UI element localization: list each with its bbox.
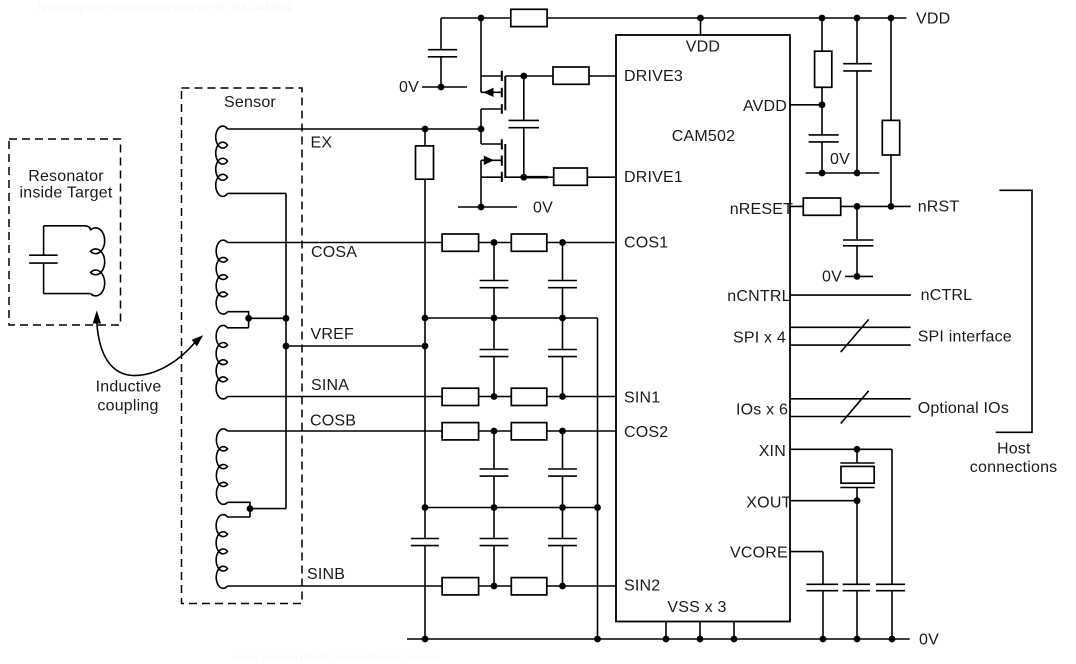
svg-text:VCORE: VCORE bbox=[730, 545, 788, 562]
resistor R COS1 a bbox=[442, 234, 479, 251]
svg-text:nCTRL: nCTRL bbox=[921, 287, 973, 304]
capacitor C gate-gate bbox=[509, 120, 540, 127]
node COS2 right bbox=[559, 428, 566, 435]
svg-text:Sensor: Sensor bbox=[224, 94, 276, 111]
svg-text:0V: 0V bbox=[399, 79, 419, 96]
coil EX bbox=[216, 126, 228, 196]
svg-text:COSB: COSB bbox=[310, 413, 356, 430]
svg-text:Host: Host bbox=[997, 441, 1031, 458]
coil SINB bbox=[216, 515, 250, 589]
node tap A on inner vertical bbox=[283, 315, 290, 322]
wire VDD to nRST pullup bbox=[890, 18, 892, 120]
node nRST pullup bbox=[888, 203, 895, 210]
transistor Q2 channel bbox=[501, 139, 503, 182]
node 0V stub AVDD left bbox=[819, 170, 826, 177]
capacitor C c2 COS1-rail1 bbox=[548, 281, 577, 288]
wire XOUT cap to rail bbox=[856, 591, 858, 639]
resistor R AVDD bbox=[815, 51, 832, 87]
arrowhead toward sensor bbox=[192, 335, 204, 346]
wire centre tap A to inner vertical bbox=[249, 317, 286, 319]
node SIN2 mid bbox=[491, 583, 498, 590]
wire gate cap link lower bbox=[523, 128, 525, 177]
node XIN crystal bbox=[854, 446, 861, 453]
wire EX line bbox=[228, 128, 482, 130]
transistor Q1 body lead bbox=[481, 91, 502, 93]
svg-text:COS2: COS2 bbox=[624, 424, 668, 441]
wire resistor to VREF/cap bbox=[424, 179, 426, 538]
wire Q1 drain to EX node bbox=[480, 109, 482, 129]
transistor Q2 source lead bbox=[481, 176, 502, 178]
wire XIN cap to rail bbox=[891, 591, 893, 639]
capacitor C VREF-0V bbox=[411, 539, 439, 546]
svg-text:AVDD: AVDD bbox=[743, 98, 787, 115]
wire cap column c2 upper bbox=[562, 243, 564, 397]
capacitor C c1 rail1-SIN1 bbox=[480, 350, 509, 357]
node VSS 1 bbox=[663, 636, 670, 643]
wire AVDD resistor to node and cap bbox=[821, 87, 823, 134]
wire resonator loop bottom bbox=[44, 293, 91, 295]
resistor R SIN1 b bbox=[511, 388, 547, 405]
wire VDD decoupling cap top bbox=[856, 18, 858, 63]
svg-text:EX: EX bbox=[311, 135, 333, 152]
svg-text:COSA: COSA bbox=[311, 244, 357, 261]
capacitor C XIN load bbox=[876, 584, 905, 590]
wire Q2 gate to DRIVE1 bbox=[505, 176, 524, 178]
node rail1 c2 bbox=[559, 315, 566, 322]
crystal X1 top plate bbox=[840, 462, 874, 464]
wire VDD down to Q1 bbox=[480, 18, 482, 92]
node rail at x891 bbox=[888, 15, 895, 22]
wire EX node down to Q2 drain bbox=[480, 129, 482, 144]
svg-text:VREF: VREF bbox=[311, 326, 354, 343]
transistor Q2 body lead bbox=[481, 159, 502, 161]
transistor Q2 body arrow bbox=[484, 156, 494, 165]
wire cap column c1 lower bbox=[493, 431, 495, 586]
wire AVDD cap to 0V stub bbox=[821, 142, 823, 173]
wire cap to 0V stub bbox=[440, 57, 442, 87]
svg-text:nRESET: nRESET bbox=[730, 201, 793, 218]
coil COSB bbox=[216, 429, 227, 504]
wire COSA bottom lead bbox=[228, 312, 249, 328]
transistor Q1 source lead bbox=[481, 75, 502, 77]
resistor R SIN2 b bbox=[511, 578, 547, 595]
wire cap column c2 lower bbox=[562, 431, 564, 586]
wire resonator left leg bbox=[43, 226, 45, 294]
wire nRESET pin line bbox=[790, 205, 911, 207]
bus slash SPI bbox=[841, 319, 869, 352]
svg-text:SINB: SINB bbox=[307, 566, 345, 583]
svg-text:0V: 0V bbox=[830, 151, 850, 168]
node VSS 3 bbox=[731, 636, 738, 643]
wire resonator loop top bbox=[44, 226, 91, 230]
wire VCORE line bbox=[790, 551, 823, 553]
svg-text:Optional IOs: Optional IOs bbox=[918, 400, 1009, 417]
transistor Q2 gate bar bbox=[504, 144, 506, 178]
capacitor C c1 rail2-SIN2 bbox=[480, 539, 509, 546]
node EX at x481 bbox=[478, 126, 485, 133]
node rail at x822 bbox=[819, 15, 826, 22]
node rail2 c1 bbox=[491, 504, 498, 511]
resonator dashed box bbox=[9, 139, 121, 325]
capacitor C AVDD bbox=[809, 135, 839, 142]
host bracket bbox=[996, 190, 1032, 432]
wire gate cap link upper bbox=[523, 76, 525, 120]
svg-text:inside Target: inside Target bbox=[19, 185, 112, 202]
wire XIN line bbox=[790, 448, 892, 450]
wire 0V stub nRST bbox=[845, 275, 873, 277]
svg-text:DRIVE1: DRIVE1 bbox=[624, 169, 683, 186]
node EX line at x425 bbox=[422, 126, 429, 133]
svg-text:COS1: COS1 bbox=[624, 235, 668, 252]
wire cap to 0V rail bbox=[424, 546, 426, 639]
wire XIN right leg down bbox=[891, 449, 893, 583]
capacitor C nRST bbox=[843, 240, 873, 246]
node rail1 c1 bbox=[491, 315, 498, 322]
crystal X1 body bbox=[841, 466, 874, 483]
svg-text:IOs x 6: IOs x 6 bbox=[736, 401, 788, 418]
wire thick to resistor bbox=[548, 176, 554, 178]
wire pullup to nRST line bbox=[890, 155, 892, 206]
node 0V rail at x425 bbox=[422, 636, 429, 643]
node XOUT crystal bbox=[854, 497, 861, 504]
wire SPI bus line lower bbox=[790, 344, 911, 346]
resistor R DRIVE3 bbox=[553, 67, 589, 84]
node rail drop at 0V bbox=[594, 636, 601, 643]
node 0V mosfet bbox=[478, 204, 485, 211]
capacitor C c1 COS1-rail1 bbox=[480, 281, 509, 288]
wire VSS stub 1 bbox=[665, 622, 667, 640]
wire rail2 bbox=[425, 507, 598, 509]
svg-text:SIN1: SIN1 bbox=[624, 389, 660, 406]
node nRST cap bbox=[854, 203, 861, 210]
node VREF at EX resistor line bbox=[422, 343, 429, 350]
node VREF at inner vertical bbox=[283, 343, 290, 350]
svg-text:connections: connections bbox=[970, 459, 1058, 476]
resistor R SIN2 a bbox=[442, 578, 479, 595]
svg-text:SINA: SINA bbox=[311, 377, 349, 394]
wire centre tap B to inner vertical bbox=[250, 508, 286, 510]
wire 0V stub AVDD bbox=[806, 172, 880, 174]
wire rail1 corner down to 0V rail bbox=[597, 318, 599, 639]
wire VSS stub 3 bbox=[733, 622, 735, 640]
wire nRST cap to 0V bbox=[856, 246, 858, 276]
capacitor C VDD decouple bbox=[843, 64, 872, 71]
wire VDD rail bbox=[441, 17, 906, 19]
svg-text:coupling: coupling bbox=[97, 398, 158, 415]
svg-text:0V: 0V bbox=[822, 269, 842, 286]
transistor Q1 channel bbox=[501, 71, 503, 114]
wire VCORE leg down bbox=[822, 552, 824, 584]
node COS1 right bbox=[559, 239, 566, 246]
wire DRIVE3 resistor to chip bbox=[589, 75, 616, 77]
transistor Q1 drain lead bbox=[481, 108, 502, 110]
wire EX coil bottom lead bbox=[228, 192, 287, 194]
svg-text:CAM502: CAM502 bbox=[672, 128, 735, 145]
wire VREF line bbox=[286, 345, 425, 347]
svg-text:VSS x 3: VSS x 3 bbox=[667, 599, 726, 616]
resistor R EX-VREF bbox=[416, 146, 434, 179]
wire 0V stub top left bbox=[422, 86, 467, 88]
node SIN1 right bbox=[559, 393, 566, 400]
wire XOUT line bbox=[790, 500, 857, 502]
wire nRST to cap bbox=[856, 206, 858, 239]
capacitor C c1 COS2-rail2 bbox=[480, 469, 509, 476]
resistor R nRST pullup bbox=[882, 120, 899, 155]
node SIN1 mid bbox=[491, 393, 498, 400]
wire rail1 bbox=[425, 317, 598, 319]
wire COSB/COS2 line bbox=[228, 430, 617, 432]
node COSB/SINB centre tap bbox=[247, 505, 254, 512]
node 0V stub AVDD right bbox=[854, 170, 861, 177]
svg-text:SIN2: SIN2 bbox=[624, 578, 660, 595]
svg-text:XIN: XIN bbox=[759, 443, 786, 460]
wire nCNTRL line bbox=[790, 294, 911, 296]
svg-text:Typical system connections dia: Typical system connections diagram for t… bbox=[36, 2, 293, 14]
capacitor C resonator bbox=[29, 255, 58, 263]
wire 0V rail bbox=[407, 638, 910, 640]
node SIN2 right bbox=[559, 583, 566, 590]
wire VCORE cap to rail bbox=[822, 591, 824, 639]
resistor R COS2 a bbox=[442, 423, 479, 440]
wire COSB bottom lead bbox=[228, 502, 251, 517]
svg-text:Inductive: Inductive bbox=[96, 379, 162, 396]
node rail1 at x425 bbox=[422, 315, 429, 322]
arrowhead into resonator bbox=[93, 311, 101, 324]
resistor R VDD rail bbox=[511, 9, 547, 26]
capacitor C VCORE bbox=[806, 584, 838, 590]
node COSA/SINA centre tap bbox=[245, 315, 252, 322]
svg-text:SPI interface: SPI interface bbox=[918, 328, 1012, 345]
wire cap column c1 upper bbox=[493, 243, 495, 397]
wire COSA/COS1 line bbox=[228, 242, 617, 244]
coil SINA bbox=[216, 325, 249, 399]
wire IOs bus line lower bbox=[790, 416, 911, 418]
wire DRIVE1 resistor to chip bbox=[587, 176, 616, 178]
wire SPI bus line upper bbox=[790, 326, 911, 328]
transistor Q1 body arrow bbox=[483, 88, 493, 97]
node gate cap bottom bbox=[520, 174, 527, 181]
sensor dashed box bbox=[182, 88, 303, 604]
node rail at x857 bbox=[854, 15, 861, 22]
wire XIN to crystal bbox=[856, 449, 858, 463]
node VSS 2 bbox=[697, 636, 704, 643]
svg-text:nRST: nRST bbox=[918, 199, 960, 216]
capacitor C c2 rail2-SIN2 bbox=[548, 539, 577, 546]
svg-text:0V: 0V bbox=[919, 632, 939, 649]
wire sensor inner vertical bbox=[285, 193, 287, 508]
wire VSS stub 2 bbox=[699, 622, 701, 640]
wire gate node to resistor thick bbox=[524, 176, 548, 179]
node rail2 right bbox=[594, 504, 601, 511]
wire SINB/SIN2 line bbox=[228, 585, 617, 587]
wire Q2 body/source to 0V bbox=[480, 160, 482, 207]
svg-text:XOUT: XOUT bbox=[746, 495, 791, 512]
wire VDD decoupling cap bottom bbox=[856, 71, 858, 173]
svg-text:Figure: typical application ci: Figure: typical application circuit sche… bbox=[232, 652, 439, 662]
svg-text:0V: 0V bbox=[533, 200, 553, 217]
svg-text:SPI x 4: SPI x 4 bbox=[733, 330, 786, 347]
coil COSA bbox=[216, 240, 227, 314]
node COS2 mid bbox=[491, 428, 498, 435]
node gate cap top bbox=[520, 73, 527, 80]
svg-text:Resonator: Resonator bbox=[28, 168, 104, 185]
wire AVDD pin line bbox=[790, 104, 822, 106]
node 0V nRST bbox=[854, 273, 861, 280]
node rail2 left bbox=[422, 504, 429, 511]
svg-text:DRIVE3: DRIVE3 bbox=[624, 68, 683, 85]
capacitor C VDD-0V top left bbox=[428, 50, 457, 57]
node rail XIN cap bbox=[889, 636, 896, 643]
capacitor C XOUT load bbox=[843, 584, 870, 590]
wire SINA/SIN1 line bbox=[228, 396, 617, 398]
wire EX to resistor bbox=[424, 129, 426, 146]
resistor R DRIVE1 bbox=[554, 168, 588, 185]
wire VDD to AVDD resistor bbox=[821, 18, 823, 51]
node rail at chip VDD stub bbox=[697, 15, 704, 22]
svg-text:nCNTRL: nCNTRL bbox=[727, 288, 790, 305]
capacitor C c2 COS2-rail2 bbox=[548, 469, 577, 476]
resistor R nRESET bbox=[803, 198, 840, 215]
wire 0V stub mosfet bbox=[458, 206, 517, 208]
svg-text:VDD: VDD bbox=[686, 39, 720, 56]
node AVDD bbox=[819, 101, 826, 108]
node rail at x481 bbox=[478, 15, 485, 22]
transistor Q1 gate bar bbox=[504, 76, 506, 110]
bus slash IOs bbox=[841, 391, 869, 424]
crystal X1 bottom plate bbox=[840, 487, 874, 489]
resistor R COS1 b bbox=[511, 234, 547, 251]
coupling arrow curve bbox=[97, 323, 195, 376]
wire Q1 gate to DRIVE3 bbox=[505, 75, 553, 77]
inductor L resonator bbox=[91, 228, 105, 296]
IC U1 CAM502 body bbox=[616, 35, 790, 622]
resistor R SIN1 a bbox=[442, 388, 479, 405]
node COS1 mid bbox=[491, 239, 498, 246]
node rail2 c2 bbox=[559, 504, 566, 511]
wire XOUT leg down bbox=[856, 501, 858, 584]
wire VDD stub to chip bbox=[700, 18, 702, 35]
wire rail left corner down bbox=[440, 18, 442, 49]
transistor Q2 drain lead bbox=[481, 143, 502, 145]
capacitor C c2 rail1-SIN1 bbox=[548, 350, 577, 357]
resistor R COS2 b bbox=[511, 423, 547, 440]
svg-text:VDD: VDD bbox=[916, 11, 950, 28]
wire crystal to XOUT bbox=[856, 488, 858, 501]
node rail VCORE cap bbox=[820, 636, 827, 643]
node rail XOUT cap bbox=[854, 636, 861, 643]
node 0V stub bbox=[438, 84, 445, 91]
wire IOs bus line upper bbox=[790, 398, 911, 400]
